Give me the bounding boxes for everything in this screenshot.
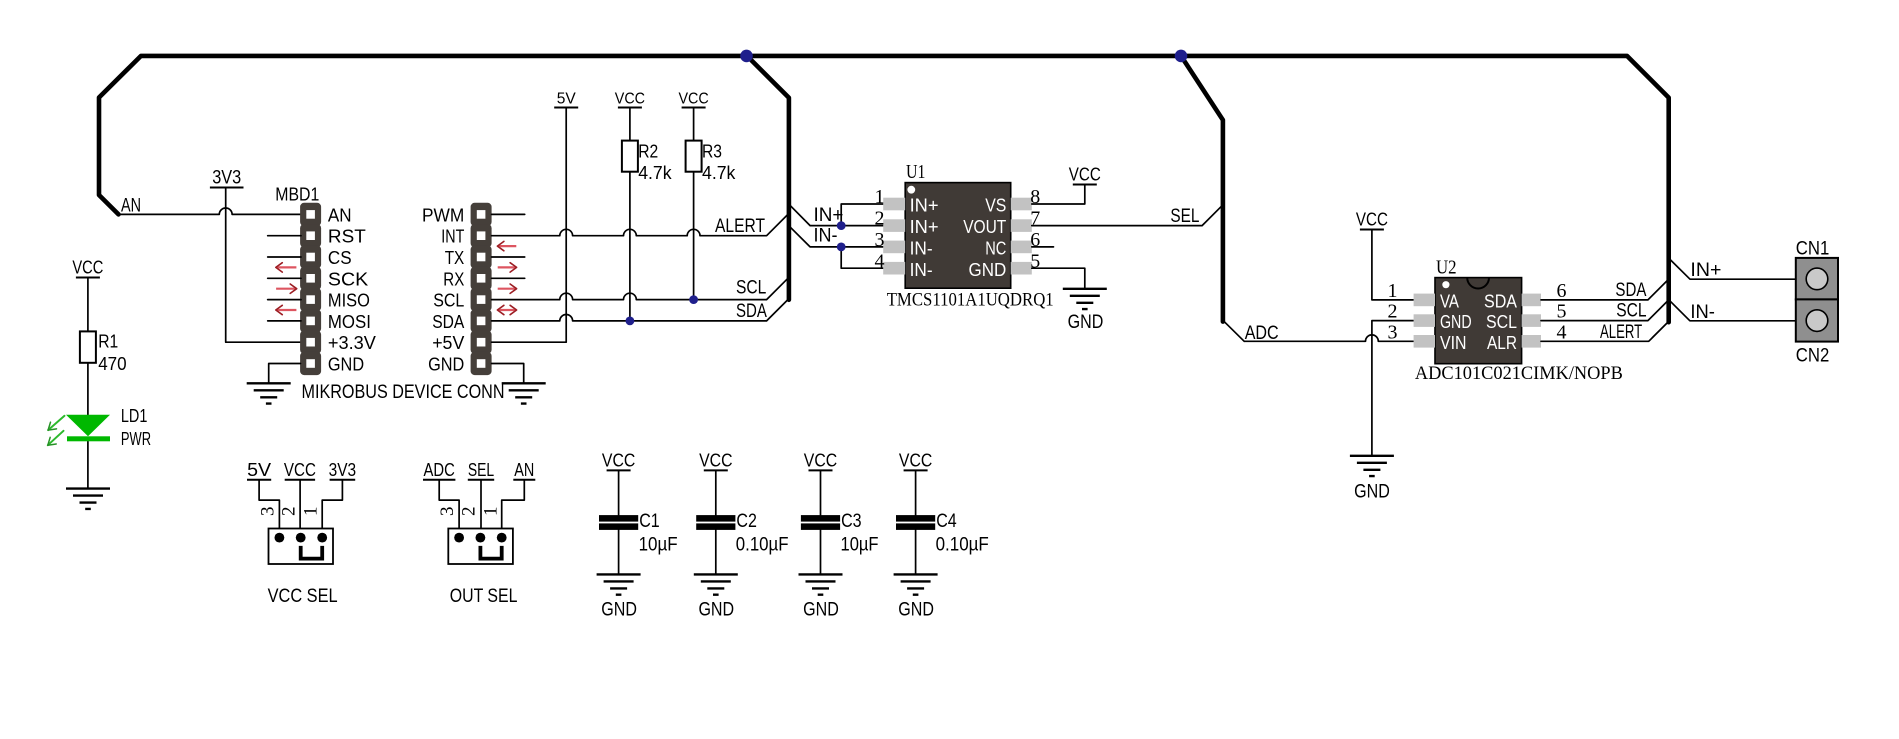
svg-text:5: 5	[1557, 301, 1567, 323]
svg-text:SCL: SCL	[1486, 312, 1517, 332]
svg-text:C2: C2	[736, 511, 757, 532]
wire VCCSEL pin2	[299, 480, 301, 538]
label R1	[98, 332, 118, 352]
svg-text:SEL: SEL	[468, 460, 494, 480]
svg-text:GND: GND	[969, 260, 1007, 280]
svg-text:6: 6	[1557, 280, 1567, 302]
svg-text:IN+: IN+	[1690, 260, 1721, 281]
label IN- left	[814, 226, 838, 247]
wire SEL	[1032, 205, 1223, 226]
label GND at C4	[898, 600, 934, 621]
adc U2 body	[1435, 278, 1522, 364]
svg-text:IN+: IN+	[910, 217, 939, 237]
U2 pin1 dot	[1442, 281, 1449, 288]
wire CS stub	[268, 256, 301, 258]
net ADC at OUTSEL	[423, 460, 455, 480]
svg-text:SDA: SDA	[1615, 280, 1646, 301]
label R2	[638, 142, 658, 162]
resistor R1 body	[80, 331, 96, 362]
svg-text:ALERT: ALERT	[1600, 322, 1642, 343]
svg-text:ADC101C021CIMK/NOPB: ADC101C021CIMK/NOPB	[1415, 363, 1623, 384]
label OUT SEL	[450, 586, 518, 607]
ground C1	[597, 574, 641, 594]
arrow SCK in	[276, 263, 297, 272]
svg-text:10µF: 10µF	[841, 534, 879, 555]
label R3 value 4.7k	[702, 163, 736, 183]
svg-text:4: 4	[875, 250, 885, 272]
op-amp U1 body	[905, 183, 1011, 289]
svg-text:C3: C3	[841, 511, 862, 532]
wire IN- to CN2	[1669, 300, 1796, 321]
OUT SEL pads	[454, 533, 506, 543]
jumper VCC SEL box	[269, 529, 334, 565]
wire SCL	[492, 277, 789, 299]
svg-text:VCC: VCC	[1356, 210, 1388, 230]
label ALERT right	[1600, 322, 1642, 343]
label AN	[121, 196, 141, 217]
label C2 value	[736, 534, 789, 555]
wire R1 net	[87, 278, 89, 489]
wire ALERT	[492, 213, 789, 235]
svg-text:VOUT: VOUT	[963, 217, 1006, 237]
svg-text:VA: VA	[1440, 292, 1459, 312]
ground C2	[694, 574, 738, 594]
svg-text:CS: CS	[328, 248, 352, 268]
wire SCL U2 to bus	[1541, 300, 1669, 321]
ground MBD1-A	[247, 383, 291, 403]
svg-text:ALERT: ALERT	[715, 216, 765, 237]
svg-text:SDA: SDA	[432, 312, 464, 332]
label PWR	[121, 429, 151, 449]
svg-text:AN: AN	[121, 196, 141, 217]
arrow RX out	[498, 284, 517, 293]
svg-text:SCL: SCL	[736, 277, 766, 298]
power VCC at U2	[1356, 210, 1388, 230]
power VCC at C4	[899, 450, 932, 470]
wire R2 net	[629, 108, 631, 321]
resistor R3 body	[686, 141, 702, 172]
wire SDA	[492, 299, 789, 321]
label U1	[906, 161, 925, 183]
svg-text:TX: TX	[445, 248, 465, 268]
svg-text:SDA: SDA	[1484, 292, 1517, 312]
wire +5V to 5V rail	[492, 108, 567, 343]
svg-text:IN+: IN+	[814, 205, 844, 226]
ground C4	[894, 574, 938, 594]
resistor R2 body	[622, 141, 638, 172]
wire PWM stub	[492, 213, 525, 215]
wire IN+ to CN1	[1669, 258, 1796, 279]
svg-text:10µF: 10µF	[639, 534, 678, 555]
svg-text:1: 1	[480, 506, 501, 516]
svg-text:4: 4	[1557, 321, 1567, 343]
svg-text:IN-: IN-	[910, 260, 933, 280]
svg-text:SCL: SCL	[433, 291, 464, 311]
power VCC at U1	[1069, 165, 1101, 185]
svg-text:GND: GND	[428, 355, 464, 375]
wire TX stub	[492, 256, 525, 258]
svg-text:VCC SEL: VCC SEL	[268, 586, 338, 607]
U1 pin stubs	[883, 198, 1032, 275]
wire RST stub	[268, 235, 301, 237]
svg-text:ALR: ALR	[1487, 333, 1517, 353]
svg-text:MBD1: MBD1	[275, 185, 319, 205]
label U1 value TMCS1101A1UQDRQ1	[887, 289, 1054, 310]
wire IN+ from bus	[789, 204, 883, 226]
bus drop to ADC/SEL	[1181, 56, 1223, 322]
wire SDA U2 to bus	[1541, 279, 1669, 300]
svg-text:AN: AN	[328, 205, 352, 225]
svg-text:3: 3	[875, 229, 885, 251]
wire OUTSEL pin1	[502, 480, 525, 538]
label R2 value 4.7k	[638, 163, 672, 183]
label C1	[639, 511, 660, 532]
svg-text:GND: GND	[803, 600, 839, 621]
svg-text:VCC: VCC	[72, 258, 103, 278]
U1 pin1 dot	[907, 186, 915, 194]
wire MBD1 GND	[269, 364, 301, 384]
power 3V3	[210, 168, 244, 189]
label C4 value	[936, 534, 989, 555]
LD1 light arrows	[48, 416, 65, 445]
label IN- right	[1690, 302, 1715, 323]
wire NC stub	[1032, 246, 1054, 248]
svg-text:2: 2	[875, 208, 885, 230]
power VCC at VCCSEL	[284, 460, 316, 480]
arrow TX out	[498, 263, 517, 272]
svg-text:GND: GND	[698, 600, 734, 621]
svg-text:R3: R3	[702, 142, 722, 162]
wire 3V3 to +3.3V pin	[226, 188, 301, 343]
svg-text:ADC: ADC	[424, 460, 455, 480]
junction IN+	[837, 221, 846, 230]
svg-text:PWR: PWR	[121, 429, 151, 449]
power VCC at C1	[602, 450, 635, 470]
svg-text:+3.3V: +3.3V	[328, 333, 376, 353]
MBD1 header-A pads	[306, 210, 315, 368]
bus main AN/I2C harness	[99, 56, 1669, 322]
jumper OUT SEL box	[448, 529, 513, 565]
label SEL	[1170, 206, 1199, 227]
svg-text:0.10µF: 0.10µF	[936, 534, 989, 555]
svg-text:VS: VS	[985, 196, 1006, 216]
OUT SEL pin digits	[437, 506, 501, 516]
svg-text:2: 2	[279, 506, 300, 516]
wire C1 net	[618, 470, 620, 574]
wire OUTSEL pin3	[439, 480, 459, 538]
svg-text:RST: RST	[328, 227, 366, 247]
power 5V	[554, 91, 578, 108]
svg-text:VIN: VIN	[1440, 333, 1467, 353]
svg-text:AN: AN	[514, 460, 534, 480]
svg-text:RX: RX	[443, 269, 464, 289]
junction IN-	[837, 243, 846, 252]
wire MISO stub	[268, 299, 301, 301]
label SDA right	[1615, 280, 1646, 301]
wire R3 net	[693, 108, 695, 300]
svg-text:U2: U2	[1436, 256, 1457, 278]
label SDA	[736, 301, 767, 322]
power VCC at R3	[678, 91, 708, 108]
U1 pin names	[910, 196, 1007, 280]
svg-text:VCC: VCC	[602, 450, 635, 470]
svg-text:3V3: 3V3	[329, 460, 357, 480]
svg-text:R2: R2	[638, 142, 658, 162]
svg-text:3V3: 3V3	[212, 168, 241, 189]
label R1 value 470	[98, 354, 126, 374]
arrow INT out	[497, 241, 516, 250]
bus drop to U1 signals	[747, 56, 789, 300]
label GND at C3	[803, 600, 839, 621]
svg-text:0.10µF: 0.10µF	[736, 534, 789, 555]
label CN2	[1796, 346, 1830, 367]
U2 notch	[1467, 278, 1489, 289]
label C1 value	[639, 534, 678, 555]
label C2	[736, 511, 757, 532]
label U2 value ADC101C021CIMK/NOPB	[1415, 363, 1623, 384]
VCC SEL pads	[275, 533, 328, 543]
wire AN from bus to MBD1	[119, 208, 302, 214]
svg-text:GND: GND	[1354, 482, 1390, 503]
wire C2 net	[715, 470, 717, 574]
U2 pin stubs	[1414, 294, 1541, 348]
svg-text:GND: GND	[1440, 312, 1472, 332]
junction SCL-R3	[689, 295, 698, 304]
svg-text:VCC: VCC	[284, 460, 316, 480]
bus junction dot left	[740, 50, 753, 63]
ground C3	[799, 574, 843, 594]
U2 pin numbers	[1388, 280, 1567, 343]
power VCC at R2	[615, 91, 645, 108]
connector CN2	[1796, 299, 1838, 341]
svg-text:C4: C4	[936, 511, 957, 532]
VCC SEL pin digits	[257, 506, 321, 516]
svg-text:GND: GND	[328, 355, 364, 375]
ground LD1	[66, 489, 110, 509]
svg-text:IN-: IN-	[1690, 302, 1715, 323]
connector header-B body	[471, 203, 492, 375]
label ADC	[1245, 323, 1279, 344]
connector MBD1 header-A body	[300, 203, 321, 375]
wire U1 GND	[1032, 268, 1085, 289]
ground U1	[1063, 289, 1107, 309]
junction SDA-R2	[626, 317, 635, 326]
svg-text:1: 1	[1388, 280, 1398, 302]
power VCC at C3	[804, 450, 837, 470]
wire U2 VA to VCC	[1372, 230, 1414, 300]
label MBD1	[275, 185, 319, 205]
power VCC at R1	[72, 258, 103, 278]
U2 pin names	[1440, 292, 1517, 353]
svg-text:MIKROBUS DEVICE CONN: MIKROBUS DEVICE CONN	[302, 382, 505, 403]
svg-text:CN1: CN1	[1796, 238, 1830, 259]
bus junction dot right	[1175, 50, 1188, 63]
wire RX stub	[492, 277, 525, 279]
wire header-B GND	[492, 364, 524, 384]
svg-text:3: 3	[257, 506, 278, 516]
label GND at C2	[698, 600, 734, 621]
svg-text:VCC: VCC	[615, 91, 645, 108]
net AN at OUTSEL	[513, 460, 535, 480]
wire MOSI stub	[268, 320, 301, 322]
label ALERT	[715, 216, 765, 237]
label C3	[841, 511, 862, 532]
wire OUTSEL pin2	[480, 480, 482, 538]
label R3	[702, 142, 722, 162]
svg-text:4.7k: 4.7k	[702, 163, 736, 183]
svg-text:2: 2	[1388, 301, 1398, 323]
arrow MISO out	[276, 284, 297, 293]
ground U2	[1350, 456, 1394, 476]
svg-text:LD1: LD1	[121, 406, 147, 426]
wire IN- from bus	[789, 226, 883, 268]
svg-text:OUT SEL: OUT SEL	[450, 586, 518, 607]
svg-text:GND: GND	[898, 600, 934, 621]
svg-text:2: 2	[458, 506, 479, 516]
wire C4 net	[915, 470, 917, 574]
svg-text:VCC: VCC	[1069, 165, 1101, 185]
label U2	[1436, 256, 1457, 278]
label LD1	[121, 406, 147, 426]
label GND at U1	[1068, 312, 1104, 333]
label GND at C1	[601, 600, 637, 621]
OUT SEL shunt	[480, 546, 501, 559]
svg-text:IN-: IN-	[910, 239, 933, 259]
svg-text:4.7k: 4.7k	[638, 163, 672, 183]
power 3V3 at VCCSEL	[329, 460, 357, 480]
svg-text:VCC: VCC	[804, 450, 837, 470]
label SCL	[736, 277, 766, 298]
svg-text:1: 1	[301, 506, 322, 516]
svg-text:IN+: IN+	[910, 196, 939, 216]
svg-text:VCC: VCC	[699, 450, 732, 470]
power 5V at VCCSEL	[247, 460, 271, 480]
svg-text:SCL: SCL	[1616, 301, 1646, 322]
svg-text:VCC: VCC	[678, 91, 708, 108]
svg-text:GND: GND	[1068, 312, 1104, 333]
svg-text:470: 470	[98, 354, 126, 374]
wire U2 GND net	[1372, 321, 1414, 456]
wire C3 net	[820, 470, 822, 574]
svg-text:PWM: PWM	[422, 205, 464, 225]
svg-text:3: 3	[437, 506, 458, 516]
label IN+ left	[814, 205, 844, 226]
MBD1 header-A pin names	[328, 205, 376, 374]
wire ALERT U2 to bus	[1541, 321, 1669, 341]
svg-text:5V: 5V	[247, 460, 271, 480]
svg-text:ADC: ADC	[1245, 323, 1279, 344]
svg-text:5V: 5V	[557, 91, 576, 108]
header-B pin names	[422, 205, 464, 374]
wire VCCSEL pin1	[322, 480, 342, 538]
power VCC at C2	[699, 450, 732, 470]
svg-text:MISO: MISO	[328, 291, 370, 311]
label C4	[936, 511, 957, 532]
svg-text:R1: R1	[98, 332, 118, 352]
svg-text:SDA: SDA	[736, 301, 767, 322]
svg-text:IN-: IN-	[814, 226, 838, 247]
svg-text:TMCS1101A1UQDRQ1: TMCS1101A1UQDRQ1	[887, 289, 1054, 310]
svg-text:CN2: CN2	[1796, 346, 1830, 367]
label CN1	[1796, 238, 1830, 259]
svg-text:GND: GND	[601, 600, 637, 621]
svg-text:+5V: +5V	[432, 333, 464, 353]
capacitor C2 plates	[696, 515, 735, 530]
svg-text:SEL: SEL	[1170, 206, 1199, 227]
wire ADC from bus to VIN	[1223, 320, 1414, 341]
svg-text:INT: INT	[441, 227, 464, 247]
arrow MOSI in	[276, 305, 297, 314]
label IN+ right	[1690, 260, 1721, 281]
svg-text:U1: U1	[906, 161, 925, 183]
U1 pin numbers	[875, 186, 1041, 272]
header-B pads	[477, 210, 486, 368]
label C3 value	[841, 534, 879, 555]
svg-text:C1: C1	[639, 511, 660, 532]
VCC SEL shunt	[301, 546, 323, 559]
svg-text:MOSI: MOSI	[328, 312, 371, 332]
net SEL at OUTSEL	[468, 460, 494, 480]
wire VCCSEL pin3	[259, 480, 279, 538]
svg-text:3: 3	[1388, 321, 1398, 343]
led LD1	[66, 415, 110, 442]
svg-text:1: 1	[875, 186, 885, 208]
label GND at U2	[1354, 482, 1390, 503]
capacitor C3 plates	[801, 515, 840, 530]
connector CN1	[1796, 258, 1838, 300]
capacitor C1 plates	[599, 515, 638, 530]
arrow SDA bidir	[497, 305, 516, 314]
label VCC SEL	[268, 586, 338, 607]
label SCL right	[1616, 301, 1646, 322]
svg-text:NC: NC	[985, 239, 1006, 259]
ground header-B	[502, 383, 546, 403]
wire U1 VS to VCC	[1032, 185, 1085, 205]
svg-text:SCK: SCK	[328, 269, 368, 289]
svg-text:VCC: VCC	[899, 450, 932, 470]
capacitor C4 plates	[896, 515, 935, 530]
label MIKROBUS DEVICE CONN	[302, 382, 505, 403]
wire SCK stub	[268, 277, 301, 279]
